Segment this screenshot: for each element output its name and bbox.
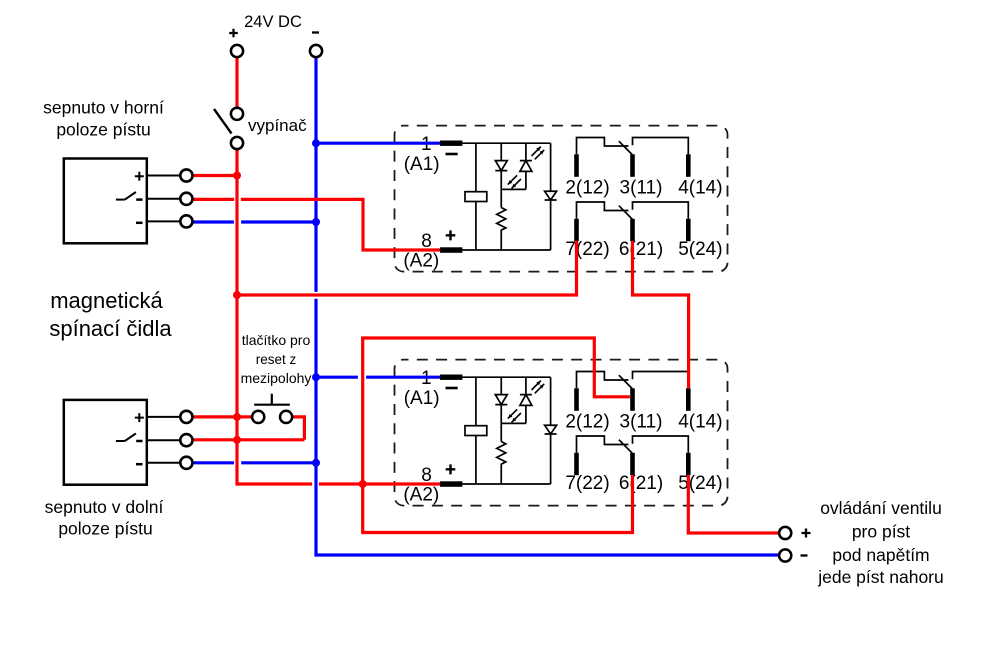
svg-text:mezipolohy: mezipolohy [241, 370, 312, 386]
svg-text:poloze pístu: poloze pístu [56, 120, 150, 140]
svg-text:pro píst: pro píst [852, 522, 910, 542]
svg-text:poloze pístu: poloze pístu [58, 519, 152, 539]
svg-text:sepnuto v horní: sepnuto v horní [43, 98, 164, 118]
svg-text:24V DC: 24V DC [244, 13, 302, 31]
svg-text:spínací čidla: spínací čidla [49, 316, 172, 341]
svg-text:pod napětím: pod napětím [832, 545, 929, 565]
svg-text:jede píst nahoru: jede píst nahoru [817, 567, 944, 587]
svg-text:magnetická: magnetická [50, 288, 163, 313]
svg-text:ovládání ventilu: ovládání ventilu [820, 498, 942, 518]
svg-text:sepnuto v dolní: sepnuto v dolní [45, 497, 164, 517]
svg-text:tlačítko pro: tlačítko pro [242, 332, 311, 348]
svg-text:reset z: reset z [256, 352, 297, 367]
svg-text:vypínač: vypínač [248, 116, 307, 135]
